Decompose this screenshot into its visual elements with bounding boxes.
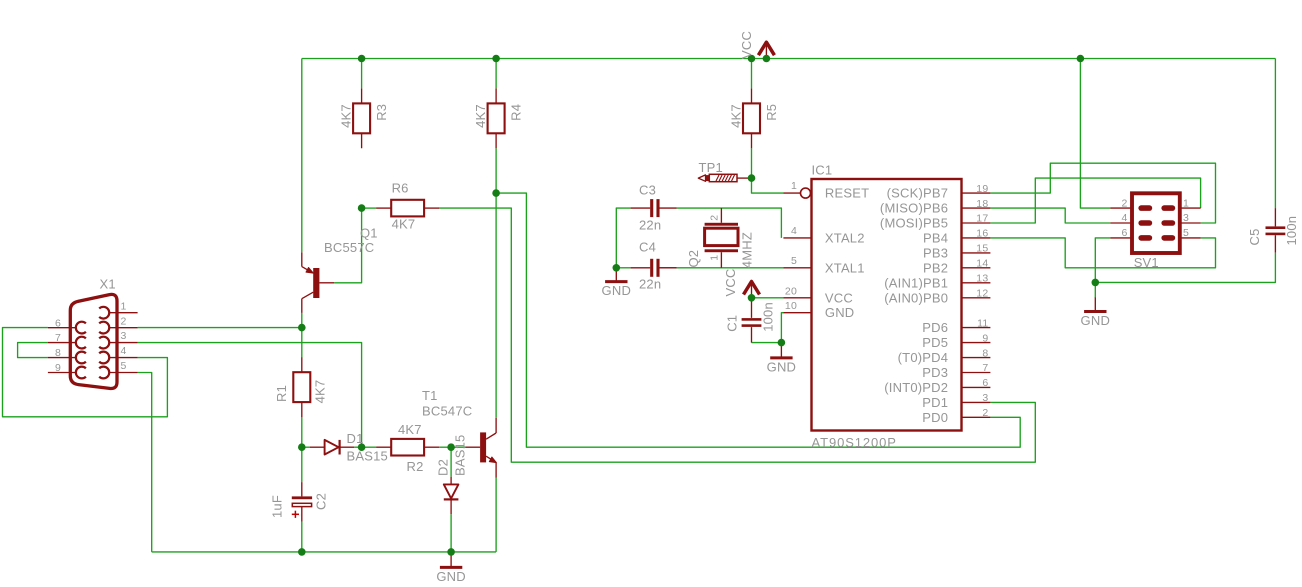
svg-text:11: 11 bbox=[977, 317, 988, 329]
svg-text:SV1: SV1 bbox=[1134, 255, 1159, 270]
svg-text:IC1: IC1 bbox=[812, 163, 833, 178]
svg-text:5: 5 bbox=[791, 255, 797, 267]
svg-text:GND: GND bbox=[825, 305, 855, 320]
svg-text:T1: T1 bbox=[422, 388, 438, 403]
svg-text:100n: 100n bbox=[761, 302, 776, 332]
svg-text:4K7: 4K7 bbox=[728, 104, 743, 128]
svg-text:20: 20 bbox=[785, 285, 797, 297]
svg-text:BAS15: BAS15 bbox=[347, 449, 388, 464]
svg-text:18: 18 bbox=[976, 198, 988, 210]
svg-text:100n: 100n bbox=[1284, 216, 1299, 246]
svg-text:4K7: 4K7 bbox=[313, 380, 328, 404]
svg-text:C2: C2 bbox=[314, 493, 329, 510]
svg-text:(MISO)PB6: (MISO)PB6 bbox=[880, 201, 948, 216]
svg-text:XTAL2: XTAL2 bbox=[825, 230, 865, 245]
svg-text:C5: C5 bbox=[1247, 228, 1262, 245]
svg-text:16: 16 bbox=[976, 228, 988, 240]
svg-text:(SCK)PB7: (SCK)PB7 bbox=[887, 186, 949, 201]
svg-text:5: 5 bbox=[1183, 227, 1189, 239]
svg-text:4: 4 bbox=[1121, 212, 1127, 224]
svg-text:7: 7 bbox=[55, 332, 61, 344]
svg-text:BAS15: BAS15 bbox=[453, 435, 468, 476]
svg-text:2: 2 bbox=[1121, 197, 1127, 209]
svg-text:4K7: 4K7 bbox=[392, 217, 416, 232]
svg-text:4: 4 bbox=[791, 225, 797, 237]
svg-text:VCC: VCC bbox=[723, 268, 738, 296]
svg-text:8: 8 bbox=[55, 347, 61, 359]
svg-text:C3: C3 bbox=[639, 183, 656, 198]
svg-text:22n: 22n bbox=[639, 217, 661, 232]
svg-text:13: 13 bbox=[976, 273, 988, 285]
svg-text:2: 2 bbox=[709, 215, 721, 221]
svg-text:8: 8 bbox=[982, 347, 988, 359]
svg-text:GND: GND bbox=[767, 359, 797, 374]
svg-text:GND: GND bbox=[602, 283, 632, 298]
svg-text:2: 2 bbox=[120, 315, 126, 327]
svg-text:RESET: RESET bbox=[825, 186, 869, 201]
svg-text:6: 6 bbox=[982, 377, 988, 389]
svg-text:(AIN1)PB1: (AIN1)PB1 bbox=[884, 275, 948, 290]
svg-text:PB4: PB4 bbox=[923, 230, 948, 245]
svg-text:(INT0)PD2: (INT0)PD2 bbox=[884, 380, 948, 395]
svg-text:9: 9 bbox=[55, 362, 61, 374]
svg-text:AT90S1200P: AT90S1200P bbox=[812, 435, 897, 450]
svg-text:TP1: TP1 bbox=[699, 160, 723, 175]
svg-text:GND: GND bbox=[436, 569, 466, 584]
svg-text:Q1: Q1 bbox=[360, 226, 378, 241]
svg-text:1uF: 1uF bbox=[269, 495, 284, 518]
svg-text:PB2: PB2 bbox=[923, 260, 948, 275]
svg-text:PD3: PD3 bbox=[922, 365, 948, 380]
svg-text:R1: R1 bbox=[274, 385, 289, 402]
svg-text:4K7: 4K7 bbox=[473, 104, 488, 128]
svg-text:3: 3 bbox=[1183, 212, 1189, 224]
svg-text:4: 4 bbox=[120, 345, 126, 357]
svg-text:R6: R6 bbox=[392, 181, 409, 196]
svg-text:GND: GND bbox=[1081, 313, 1111, 328]
svg-text:XTAL1: XTAL1 bbox=[825, 260, 865, 275]
svg-text:R3: R3 bbox=[374, 104, 389, 121]
svg-text:1: 1 bbox=[709, 255, 721, 261]
svg-text:C1: C1 bbox=[725, 315, 740, 332]
svg-text:15: 15 bbox=[976, 243, 988, 255]
svg-text:19: 19 bbox=[976, 183, 988, 195]
svg-text:(T0)PD4: (T0)PD4 bbox=[898, 350, 949, 365]
svg-text:C4: C4 bbox=[639, 240, 656, 255]
svg-text:D1: D1 bbox=[347, 431, 364, 446]
svg-text:17: 17 bbox=[976, 213, 988, 225]
svg-text:Q2: Q2 bbox=[686, 250, 701, 268]
svg-text:6: 6 bbox=[55, 317, 61, 329]
svg-text:1: 1 bbox=[1183, 197, 1189, 209]
svg-text:PD6: PD6 bbox=[922, 320, 948, 335]
svg-text:4MHZ: 4MHZ bbox=[740, 232, 755, 268]
svg-text:1: 1 bbox=[120, 300, 126, 312]
svg-text:PD1: PD1 bbox=[922, 395, 948, 410]
svg-text:BC547C: BC547C bbox=[422, 404, 472, 419]
svg-text:6: 6 bbox=[1121, 227, 1127, 239]
svg-text:5: 5 bbox=[120, 360, 126, 372]
svg-text:R4: R4 bbox=[509, 104, 524, 121]
svg-text:9: 9 bbox=[982, 332, 988, 344]
svg-text:R2: R2 bbox=[407, 459, 424, 474]
svg-text:(MOSI)PB5: (MOSI)PB5 bbox=[880, 216, 948, 231]
svg-text:X1: X1 bbox=[100, 277, 116, 292]
svg-text:BC557C: BC557C bbox=[324, 240, 374, 255]
svg-text:PD5: PD5 bbox=[922, 335, 948, 350]
svg-text:(AIN0)PB0: (AIN0)PB0 bbox=[884, 290, 948, 305]
svg-text:7: 7 bbox=[982, 362, 988, 374]
svg-text:1: 1 bbox=[791, 180, 797, 192]
svg-text:VCC: VCC bbox=[739, 31, 754, 59]
svg-text:22n: 22n bbox=[639, 277, 661, 292]
svg-text:D2: D2 bbox=[436, 459, 451, 476]
svg-text:10: 10 bbox=[785, 300, 797, 312]
svg-text:12: 12 bbox=[976, 288, 988, 300]
svg-text:14: 14 bbox=[976, 258, 988, 270]
svg-text:VCC: VCC bbox=[825, 290, 853, 305]
svg-text:PD0: PD0 bbox=[922, 410, 948, 425]
svg-text:3: 3 bbox=[120, 330, 126, 342]
svg-text:R5: R5 bbox=[764, 104, 779, 121]
svg-text:3: 3 bbox=[982, 392, 988, 404]
svg-text:2: 2 bbox=[982, 407, 988, 419]
svg-text:4K7: 4K7 bbox=[339, 104, 354, 128]
svg-text:4K7: 4K7 bbox=[398, 422, 422, 437]
svg-text:PB3: PB3 bbox=[923, 245, 948, 260]
